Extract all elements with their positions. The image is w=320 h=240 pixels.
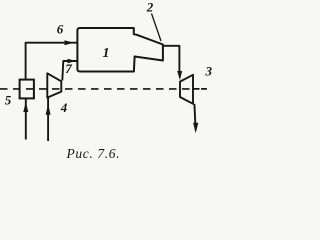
svg-text:1: 1 — [103, 46, 110, 61]
shaft dashed line — [0, 88, 193, 90]
svg-text:7: 7 — [65, 61, 72, 76]
combustion chamber 1 with nozzle 2 outline — [77, 28, 162, 72]
svg-text:5: 5 — [5, 92, 12, 107]
wire from box 5 up and to chamber — [26, 43, 78, 80]
svg-text:2: 2 — [146, 0, 154, 14]
pointer line from label 2 to nozzle — [152, 14, 162, 42]
svg-text:Рис. 7.6.: Рис. 7.6. — [66, 146, 121, 161]
pipe from nozzle to turbine — [163, 46, 180, 73]
wire 7 from compressor to chamber — [62, 61, 77, 81]
arrowhead down into turbine — [177, 71, 182, 80]
svg-text:3: 3 — [205, 63, 213, 78]
box 5 (heat exchanger) — [20, 80, 34, 99]
compressor 4 — [47, 73, 61, 97]
turbine 3 — [180, 75, 193, 104]
shaft stub right of turbine — [194, 88, 207, 90]
turbine exhaust line with down arrow — [194, 104, 195, 130]
intake arrow into box 5 — [25, 99, 27, 140]
arrowhead on wire 7 — [68, 59, 77, 64]
svg-text:4: 4 — [60, 100, 68, 115]
arrowhead on wire 6 — [65, 40, 74, 45]
svg-text:6: 6 — [57, 22, 64, 37]
intake arrow into compressor 4 — [47, 98, 49, 141]
